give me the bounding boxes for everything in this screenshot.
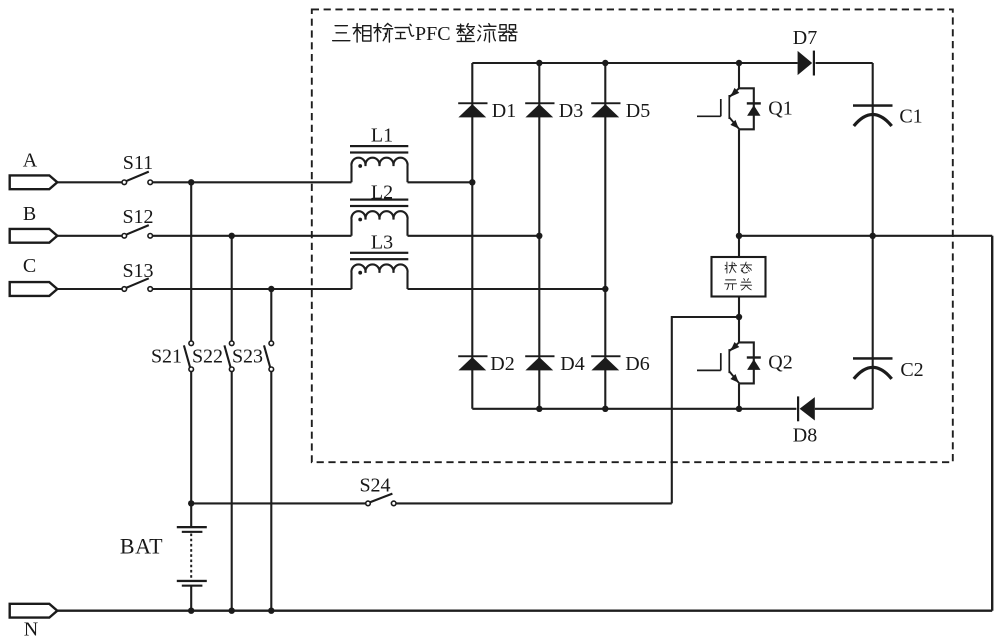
svg-text:PFC: PFC [415, 23, 451, 45]
svg-text:L1: L1 [371, 125, 393, 147]
svg-text:C1: C1 [899, 106, 922, 128]
svg-text:Q2: Q2 [768, 352, 792, 374]
svg-text:D7: D7 [793, 27, 817, 49]
svg-text:S11: S11 [123, 152, 153, 174]
svg-text:L2: L2 [371, 182, 393, 204]
svg-text:C: C [23, 255, 36, 277]
svg-text:S13: S13 [122, 260, 153, 282]
svg-text:Q1: Q1 [768, 98, 792, 120]
svg-text:S12: S12 [122, 206, 153, 228]
svg-text:D2: D2 [490, 353, 514, 375]
svg-text:N: N [24, 619, 38, 641]
svg-text:S22: S22 [192, 346, 223, 368]
svg-text:BAT: BAT [120, 534, 163, 559]
svg-text:S23: S23 [232, 346, 263, 368]
svg-text:L3: L3 [371, 232, 393, 254]
svg-text:B: B [23, 203, 36, 225]
svg-text:D5: D5 [626, 100, 650, 122]
svg-text:C2: C2 [900, 359, 923, 381]
svg-text:D6: D6 [625, 353, 649, 375]
svg-text:D4: D4 [560, 353, 584, 375]
svg-text:S24: S24 [359, 475, 390, 497]
svg-text:D3: D3 [559, 100, 583, 122]
svg-text:A: A [23, 150, 38, 172]
svg-text:D1: D1 [492, 100, 516, 122]
svg-text:D8: D8 [793, 424, 817, 446]
svg-text:S21: S21 [151, 346, 182, 368]
